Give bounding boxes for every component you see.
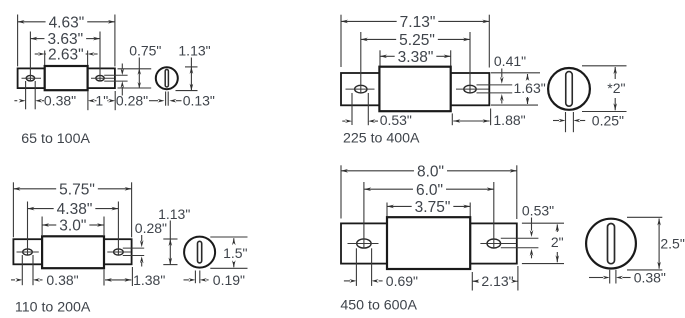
fuse 450-600A left terminal <box>341 223 387 263</box>
text 1.13" <box>178 43 210 59</box>
svg-text:1.63": 1.63" <box>513 80 545 96</box>
svg-text:7.13": 7.13" <box>400 14 436 31</box>
label 110 to 200A <box>15 299 91 315</box>
svg-text:0.69": 0.69" <box>386 273 418 289</box>
text 0.75" <box>129 43 161 59</box>
svg-text:2.63": 2.63" <box>48 47 84 64</box>
dim 0.38" end slot width (450-600A) <box>589 270 666 286</box>
fuse 225-400A right slot hole <box>456 85 512 93</box>
svg-text:1.13": 1.13" <box>158 206 190 222</box>
dim 2.13" terminal length (450-600A) <box>472 266 518 291</box>
svg-text:0.13": 0.13" <box>183 93 215 109</box>
svg-text:4.63": 4.63" <box>49 14 85 31</box>
dim 2.5" circle diameter (450-600A) <box>627 217 685 270</box>
dim 3.63" hole centers (65-100A) <box>30 31 100 81</box>
dim 6.0" hole centers (450-600A) <box>364 182 494 248</box>
svg-text:0.53": 0.53" <box>380 112 412 128</box>
dim 0.75" terminal height (65-100A) <box>118 58 152 89</box>
dim 8.0" overall length (450-600A) <box>341 163 517 219</box>
dim 4.63" overall length (65-100A) <box>18 14 115 66</box>
fuse 225-400A body <box>379 67 450 112</box>
svg-text:1": 1" <box>95 93 108 109</box>
label 65 to 100A <box>21 131 90 147</box>
dim 0.13" end slot width (65-100A) <box>149 92 215 109</box>
svg-text:0.38": 0.38" <box>46 272 78 288</box>
dim 1.88" terminal length (225-400A) <box>452 109 525 129</box>
text 0.28" (110-200A) <box>135 220 167 236</box>
end view circle (450-600A) <box>586 219 636 269</box>
dim 1.5" circle diameter (110-200A) <box>210 237 247 268</box>
svg-text:0.75": 0.75" <box>129 43 161 59</box>
dim 1.13" terminal height (110-200A) <box>163 221 177 265</box>
svg-text:1.13": 1.13" <box>178 43 210 59</box>
text 1.13" (110-200A) <box>158 206 190 222</box>
dim 0.28" slot height arrows (110-200A) <box>140 235 144 267</box>
dim 1" terminal length (65-100A) <box>88 91 115 110</box>
svg-text:65 to 100A: 65 to 100A <box>21 131 90 147</box>
dim 3.75" body length (450-600A) <box>387 199 470 217</box>
fuse 225-400A left terminal <box>341 73 379 105</box>
svg-text:0.38": 0.38" <box>44 93 76 109</box>
dim 2" terminal height (450-600A) <box>522 223 564 263</box>
svg-text:0.53": 0.53" <box>522 202 554 218</box>
text 0.41" <box>494 53 526 69</box>
fuse 450-600A right slot hole <box>480 238 538 248</box>
dim 3.0" body length (110-200A) <box>42 217 104 236</box>
svg-text:2.5": 2.5" <box>660 236 684 252</box>
dim 0.28" slot height arrows (65-100A) <box>121 64 125 96</box>
dim 5.75" overall length (110-200A) <box>13 181 131 237</box>
svg-text:1.5": 1.5" <box>223 245 247 261</box>
dim 4.38" hole centers (110-200A) <box>28 201 119 255</box>
svg-text:3.75": 3.75" <box>415 199 451 216</box>
dim 5.25" hole centers (225-400A) <box>361 32 470 93</box>
fuse 450-600A body <box>387 217 470 269</box>
svg-text:0.25": 0.25" <box>592 113 624 129</box>
svg-text:3.0": 3.0" <box>59 218 86 235</box>
svg-text:8.0": 8.0" <box>417 163 444 180</box>
dim 2.63" body length (65-100A) <box>35 47 98 67</box>
fuse 110-200A body <box>42 236 104 268</box>
end view circle (110-200A) <box>184 237 215 268</box>
fuse 65-100A left slot hole <box>22 75 42 81</box>
dim 1.38" terminal length (110-200A) <box>104 267 165 288</box>
dim 3.38" body length (225-400A) <box>380 49 451 66</box>
dim 0.25" end slot width (225-400A) <box>553 112 624 132</box>
svg-text:6.0": 6.0" <box>416 182 443 199</box>
dim 7.13" overall length (225-400A) <box>341 14 489 68</box>
svg-text:1.38": 1.38" <box>133 272 165 288</box>
svg-text:110 to 200A: 110 to 200A <box>15 299 91 315</box>
svg-text:4.38": 4.38" <box>57 201 93 218</box>
end view circle (65-100A) <box>156 67 178 89</box>
text 0.28" slot height (65-100A) <box>116 93 148 109</box>
svg-text:0.28": 0.28" <box>135 220 167 236</box>
fuse 110-200A right slot hole <box>107 248 144 255</box>
fuse 110-200A left slot hole <box>17 249 39 255</box>
svg-text:1.88": 1.88" <box>493 112 525 128</box>
fuse 225-400A left slot hole <box>346 85 375 93</box>
svg-text:0.28": 0.28" <box>116 93 148 109</box>
fuse 225-400A right terminal <box>451 73 490 105</box>
fuse 110-200A right terminal <box>104 239 132 264</box>
svg-text:5.25": 5.25" <box>399 32 435 49</box>
fuse 450-600A right terminal <box>470 223 517 263</box>
dim 0.19" end slot width (110-200A) <box>184 271 246 288</box>
dim 0.53" slot height arrows (450-600A) <box>530 218 534 259</box>
dim 1.13" circle diameter (65-100A) <box>176 58 198 91</box>
svg-text:3.63": 3.63" <box>47 31 83 48</box>
dim 0.38" slot width (65-100A) <box>14 81 76 109</box>
label 450 to 600A <box>340 298 417 314</box>
svg-text:0.38": 0.38" <box>634 270 666 286</box>
svg-text:0.19": 0.19" <box>213 272 245 288</box>
svg-text:3.38": 3.38" <box>398 49 434 66</box>
dim 0.69" slot width (450-600A) <box>344 248 418 289</box>
svg-text:0.41": 0.41" <box>494 53 526 69</box>
fuse 65-100A left terminal <box>18 68 45 88</box>
dim 0.41" slot height arrows (225-400A) <box>500 69 504 104</box>
dim 0.53" slot width (225-400A) <box>342 93 412 128</box>
svg-text:2": 2" <box>551 234 564 250</box>
svg-text:2.13": 2.13" <box>481 273 513 289</box>
svg-text:450 to 600A: 450 to 600A <box>340 298 417 314</box>
text 0.53" (450-600A) <box>522 202 554 218</box>
end view circle (225-400A) <box>548 68 590 110</box>
fuse 65-100A body <box>45 66 88 90</box>
svg-text:*2": *2" <box>607 80 625 96</box>
fuse 65-100A right terminal <box>88 68 115 88</box>
fuse 450-600A left slot hole <box>348 239 379 248</box>
dim *2" circle diameter (225-400A) <box>582 66 627 112</box>
svg-text:225 to 400A: 225 to 400A <box>343 130 420 146</box>
label 225 to 400A <box>343 130 420 146</box>
dim 1.63" terminal height (225-400A) <box>491 73 546 105</box>
dim 0.38" slot width (110-200A) <box>11 255 79 288</box>
fuse 110-200A left terminal <box>13 239 42 264</box>
fuse 65-100A right slot hole <box>91 75 128 81</box>
svg-text:5.75": 5.75" <box>59 181 95 198</box>
